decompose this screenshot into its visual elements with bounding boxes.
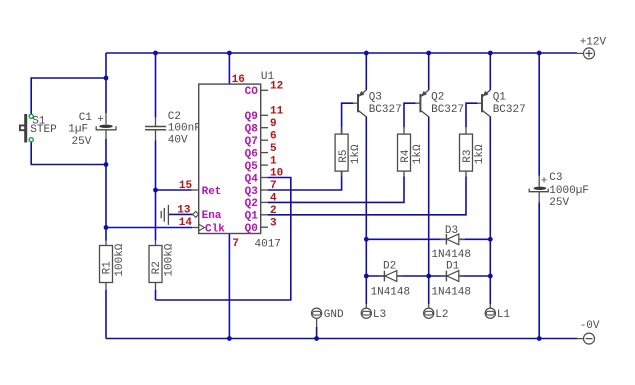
node junction Q2 collector / D1-D2 row <box>426 274 431 279</box>
node junction Q3 collector / D3 row <box>364 237 369 242</box>
node junction top rail / Q1 emitter <box>488 51 493 56</box>
switch S1 STEP <box>20 114 57 143</box>
svg-text:+12V: +12V <box>580 36 607 48</box>
wire Q2 pin 4 to R4 <box>268 177 404 203</box>
svg-text:C2: C2 <box>168 111 181 123</box>
wire +12V top rail <box>106 52 577 54</box>
U1 pin stub Q2 pin 4 <box>261 201 268 203</box>
svg-text:16: 16 <box>232 74 245 86</box>
wire Q2 emitter to top rail <box>428 53 430 90</box>
node junction S1-bottom / C1 bottom <box>104 162 109 167</box>
wire R1 bottom to ground rail <box>105 290 107 339</box>
svg-text:11: 11 <box>270 106 284 118</box>
svg-text:1000µF: 1000µF <box>549 185 589 197</box>
wire Ret pin 15 <box>156 189 192 191</box>
svg-text:Clk: Clk <box>205 223 225 235</box>
svg-text:25V: 25V <box>549 197 569 209</box>
resistor R3 1k <box>460 127 487 176</box>
svg-text:10: 10 <box>270 168 283 180</box>
svg-text:D1: D1 <box>446 260 460 272</box>
svg-text:BC327: BC327 <box>431 104 464 116</box>
U1 Ena inversion bubble <box>193 211 199 217</box>
wire Q1 base link <box>466 103 478 127</box>
svg-text:1µF: 1µF <box>68 123 88 135</box>
transistor Q1 BC327 <box>478 90 526 117</box>
svg-text:40V: 40V <box>168 135 188 147</box>
wire Clk pin 14 <box>106 227 192 229</box>
U1 pin stub Q1 pin 2 <box>261 214 268 216</box>
lamp terminal L3 <box>361 304 386 321</box>
svg-text:100nF: 100nF <box>168 123 201 135</box>
node junction Q3 collector / D2 row <box>364 274 369 279</box>
svg-text:CO: CO <box>245 86 259 98</box>
node junction bottom rail / pin7 <box>227 336 232 341</box>
wire Q1 pin 2 to R3 <box>268 177 466 215</box>
lamp terminal L1 <box>485 304 510 321</box>
svg-text:1kΩ: 1kΩ <box>412 144 424 164</box>
svg-text:GND: GND <box>324 309 344 321</box>
U1 pin stub Q9 pin 11 <box>261 114 268 116</box>
wire Q3 emitter to top rail <box>365 53 367 90</box>
svg-text:R3: R3 <box>462 149 474 162</box>
node junction bottom rail / C3 <box>537 336 542 341</box>
svg-text:L2: L2 <box>435 309 448 321</box>
wire Q4 pin 10 to R2 bottom <box>156 178 291 301</box>
wire S1 bottom link <box>31 142 106 165</box>
U1 pin stub Q6 pin 5 <box>261 152 268 154</box>
capacitor C1 1uF electrolytic <box>68 112 116 148</box>
svg-text:Q2: Q2 <box>431 91 444 103</box>
node junction Clk wire / left vertical <box>104 225 109 230</box>
svg-text:R5: R5 <box>338 149 350 162</box>
diode D2 1N4148 <box>371 260 411 298</box>
svg-text:BC327: BC327 <box>493 104 526 116</box>
node junction Q1 collector / D3 row <box>488 237 493 242</box>
svg-text:9: 9 <box>270 118 277 130</box>
wire C2 bottom to R2 top <box>155 141 157 241</box>
U1 pin stub Q7 pin 6 <box>261 139 268 141</box>
capacitor C2 100nF <box>145 111 201 147</box>
wire C2 top (rail to C2) <box>155 53 157 118</box>
svg-text:R4: R4 <box>400 149 412 163</box>
U1 pin stub Q0 pin 3 <box>261 226 268 228</box>
svg-text:1kΩ: 1kΩ <box>474 144 486 164</box>
wire Q3 collector to lamp L3 <box>365 117 367 305</box>
svg-text:Q1: Q1 <box>493 91 507 103</box>
power terminal +12V <box>577 48 595 59</box>
svg-text:13: 13 <box>177 205 191 217</box>
node junction top rail / C2 <box>153 51 158 56</box>
node junction S1-top / left vertical <box>104 76 109 81</box>
node junction C2 net / Ret wire <box>153 188 158 193</box>
svg-text:BC327: BC327 <box>369 104 402 116</box>
svg-text:15: 15 <box>179 180 193 192</box>
node junction top rail / Q2 emitter <box>426 51 431 56</box>
svg-text:5: 5 <box>270 143 277 155</box>
svg-text:Q5: Q5 <box>245 161 259 173</box>
svg-text:Q3: Q3 <box>369 91 382 103</box>
wire R2 bottom lead down <box>155 290 157 300</box>
svg-text:25V: 25V <box>72 136 92 148</box>
svg-text:D3: D3 <box>445 225 458 237</box>
wire Q1 collector to lamp L1 <box>489 117 491 305</box>
U1 clock input triangle <box>199 224 205 231</box>
svg-text:L3: L3 <box>373 309 386 321</box>
wire left vertical (top rail to C1) <box>105 53 107 113</box>
svg-text:R2: R2 <box>151 261 163 274</box>
svg-text:-0V: -0V <box>580 320 600 332</box>
wire U1 pin 16 to top rail <box>228 53 230 84</box>
svg-text:2: 2 <box>270 205 277 217</box>
transistor Q3 BC327 <box>353 90 401 117</box>
power terminal -0V <box>577 333 595 344</box>
svg-text:4: 4 <box>270 193 277 205</box>
diode D3 1N4148 <box>431 225 471 261</box>
resistor R5 1k <box>335 127 362 176</box>
U1 pin stub Q5 pin 1 <box>261 164 268 166</box>
wire C3 bottom to rail <box>538 202 540 338</box>
wire D1-D2 row <box>366 275 490 277</box>
svg-text:R1: R1 <box>102 261 114 275</box>
svg-text:Ret: Ret <box>202 186 222 198</box>
wire Q1 emitter to top rail <box>489 53 491 90</box>
resistor R4 1k <box>398 127 425 176</box>
svg-text:100kΩ: 100kΩ <box>163 243 175 276</box>
U1 pin stub Q4 pin 10 <box>261 177 268 179</box>
svg-text:Q7: Q7 <box>245 136 258 148</box>
wire D3 row <box>366 238 490 240</box>
svg-text:1: 1 <box>270 155 277 167</box>
node junction top rail / pin16 <box>227 51 232 56</box>
svg-text:+: + <box>541 176 548 188</box>
node junction bottom rail / GND terminal <box>314 336 319 341</box>
svg-text:1N4148: 1N4148 <box>371 286 411 298</box>
svg-text:Q3: Q3 <box>245 186 259 198</box>
svg-text:1kΩ: 1kΩ <box>350 144 362 164</box>
svg-text:+: + <box>97 114 104 126</box>
wire C3 top (rail to C3) <box>538 53 540 176</box>
wire Q2 collector to lamp L2 <box>428 117 430 305</box>
svg-text:U1: U1 <box>261 71 275 83</box>
transistor Q2 BC327 <box>416 90 464 117</box>
svg-text:Q1: Q1 <box>245 211 259 223</box>
svg-text:14: 14 <box>179 217 193 229</box>
node junction top rail / C3 <box>537 51 542 56</box>
node junction Q1 collector / D1 row <box>488 274 493 279</box>
wire U1 bottom pin 7 to ground rail <box>228 234 230 339</box>
svg-text:4017: 4017 <box>255 238 281 250</box>
svg-text:1N4148: 1N4148 <box>431 286 471 298</box>
svg-text:Ena: Ena <box>202 210 222 222</box>
svg-text:D2: D2 <box>383 260 396 272</box>
U1 pin stub CO pin 12 <box>261 89 268 91</box>
wire 0V bottom rail <box>106 338 577 340</box>
svg-text:Q0: Q0 <box>245 223 258 235</box>
svg-text:7: 7 <box>270 180 277 192</box>
connector GND <box>312 308 345 327</box>
wire GND terminal to bottom rail <box>316 327 318 339</box>
U1 pin stub Q3 pin 7 <box>261 189 268 191</box>
IC U1 4017 body <box>199 84 261 233</box>
U1 pin stub Q8 pin 9 <box>261 127 268 129</box>
node junction top rail / Q3 emitter <box>364 51 369 56</box>
svg-text:L1: L1 <box>497 309 511 321</box>
wire Q3 pin 7 to R5 <box>268 127 342 190</box>
wire left vertical (C1 to R1) <box>105 139 107 241</box>
lamp terminal L2 <box>424 304 449 321</box>
wire Ena pin 13 to ground symbol <box>169 213 193 215</box>
svg-text:7: 7 <box>232 238 239 250</box>
wire S1 top link <box>31 78 106 115</box>
svg-text:6: 6 <box>270 130 277 142</box>
svg-text:Q4: Q4 <box>245 173 259 185</box>
resistor R1 100k <box>100 241 126 291</box>
diode D1 1N4148 <box>431 260 471 298</box>
svg-text:C1: C1 <box>79 112 93 124</box>
svg-text:3: 3 <box>270 217 277 229</box>
ground symbol at Ena pin <box>161 205 168 225</box>
svg-text:Q8: Q8 <box>245 124 259 136</box>
svg-text:STEP: STEP <box>30 124 57 136</box>
wire Q2 base link <box>404 103 416 127</box>
svg-text:Q9: Q9 <box>245 111 258 123</box>
svg-text:C3: C3 <box>549 172 562 184</box>
svg-text:Q2: Q2 <box>245 198 258 210</box>
resistor R2 100k <box>149 241 175 291</box>
svg-text:Q6: Q6 <box>245 148 258 160</box>
capacitor C3 1000uF electrolytic <box>529 172 589 209</box>
wire Q3 base link <box>342 103 354 127</box>
svg-text:100kΩ: 100kΩ <box>114 243 126 276</box>
